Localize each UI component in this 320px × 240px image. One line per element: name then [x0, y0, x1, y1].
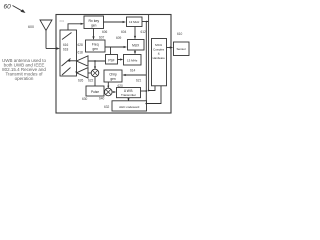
- svg-text:604: 604: [121, 30, 127, 34]
- wire mixer M1 down to pulse gen: [94, 77, 96, 86]
- wire bus to chirp gen: [124, 74, 147, 76]
- wire MUX down to 13MHz mid: [134, 50, 136, 54]
- wire UWB transmitter down to AHC box: [128, 98, 130, 101]
- mixer M2: [105, 88, 113, 96]
- outer block boundary: [56, 15, 171, 114]
- chirp gen box: [104, 70, 122, 82]
- wire MCU to sensor: [167, 47, 172, 49]
- antenna 600: [40, 20, 52, 49]
- PSF box: [106, 55, 118, 65]
- wire PSF to 13MHz mid: [118, 59, 123, 61]
- wire PA output into switch: [68, 60, 76, 62]
- svg-text:618: 618: [63, 48, 69, 52]
- svg-text:Transmitter: Transmitter: [121, 93, 136, 97]
- wire switch up to Rx sig gen: [68, 24, 83, 30]
- svg-text:AHC codeword: AHC codeword: [119, 105, 140, 109]
- figure reference 60 arrow: [13, 6, 25, 13]
- MUX box: [128, 40, 145, 51]
- wire bus bottom to MCU: [146, 86, 161, 104]
- svg-text:Sensor: Sensor: [176, 47, 186, 51]
- svg-text:609: 609: [116, 36, 122, 40]
- svg-text:630: 630: [82, 97, 88, 101]
- wire chirp gen down to mixer M2: [107, 82, 109, 88]
- caption paragraph: [2, 58, 47, 81]
- svg-text:606: 606: [102, 30, 108, 34]
- svg-text:Rx key: Rx key: [88, 19, 99, 23]
- wire MCU left drop to bus: [149, 86, 155, 91]
- wire Rx sig gen down to Freq gen: [93, 29, 95, 40]
- svg-text:60: 60: [4, 4, 12, 11]
- wire LNA base to mixer M1: [88, 72, 91, 74]
- svg-text:602: 602: [60, 19, 65, 23]
- wire UWB transmitter to bus: [141, 90, 146, 92]
- wire antenna to switch: [46, 48, 59, 50]
- wire 13MHz top down to MUX: [134, 27, 136, 39]
- svg-text:gen: gen: [91, 23, 97, 27]
- wire pulse gen to mixer M2: [103, 91, 106, 93]
- svg-text:13 MHz: 13 MHz: [129, 20, 140, 24]
- wire freq gen to MUX: [105, 46, 126, 48]
- svg-text:Freq: Freq: [92, 43, 99, 47]
- svg-text:gen: gen: [93, 47, 99, 51]
- wire mixer M2 to UWB transmitter: [112, 91, 115, 93]
- figure reference 60 arrowhead: [21, 9, 26, 13]
- svg-text:618: 618: [78, 51, 84, 55]
- svg-text:628: 628: [78, 43, 84, 47]
- svg-text:600: 600: [28, 25, 34, 29]
- wire Rx sig gen to 13MHz top box: [104, 21, 125, 23]
- svg-text:640: 640: [99, 97, 105, 101]
- wire 13MHz top box to bus: [142, 21, 148, 23]
- 13 MHz mid box: [124, 55, 142, 66]
- svg-text:13 MHz: 13 MHz: [127, 58, 138, 62]
- wire branch down to PSF: [110, 47, 112, 54]
- svg-text:621: 621: [136, 79, 142, 83]
- svg-text:&: &: [158, 52, 160, 56]
- T/R switch box 616/618: [60, 30, 77, 76]
- svg-text:PSF: PSF: [108, 58, 114, 62]
- svg-text:610: 610: [177, 32, 183, 36]
- switch contact top: [62, 33, 72, 40]
- AHC codeword box: [112, 101, 147, 111]
- switch contact bottom: [62, 68, 71, 76]
- 13 MHz top box 604: [127, 17, 143, 27]
- wire PA base to PSF: [88, 60, 105, 62]
- bus wire 1: [145, 22, 147, 104]
- UWB transmitter box: [117, 88, 141, 98]
- svg-text:Chirp: Chirp: [109, 72, 117, 76]
- svg-text:614: 614: [130, 69, 136, 73]
- pulse gen box 630: [86, 86, 104, 96]
- wire down into mixer M1: [94, 61, 96, 69]
- Freq gen box 608: [86, 40, 106, 52]
- svg-text:Hardware: Hardware: [153, 56, 166, 60]
- Rx sig gen box 602: [84, 16, 104, 29]
- svg-text:gen: gen: [110, 77, 116, 81]
- junction at 95,61: [94, 60, 96, 62]
- svg-text:607: 607: [99, 36, 105, 40]
- svg-text:MUX: MUX: [132, 43, 140, 47]
- MCU complex box: [152, 39, 167, 86]
- mixer M1: [91, 69, 99, 77]
- bus wire 2 from top edge: [148, 15, 150, 91]
- svg-text:626: 626: [78, 79, 84, 83]
- wire switch to LNA apex: [75, 71, 78, 73]
- switch contact middle: [62, 59, 71, 67]
- svg-text:Pulse: Pulse: [91, 90, 99, 94]
- sensor box 610: [174, 42, 190, 56]
- svg-text:612: 612: [141, 30, 147, 34]
- svg-text:616: 616: [63, 43, 69, 47]
- PA amplifier triangle (tx): [77, 56, 89, 66]
- svg-text:operation: operation: [15, 76, 34, 81]
- svg-text:632: 632: [104, 105, 110, 109]
- LNA amplifier triangle (rx): [77, 68, 89, 78]
- svg-text:622: 622: [88, 79, 94, 83]
